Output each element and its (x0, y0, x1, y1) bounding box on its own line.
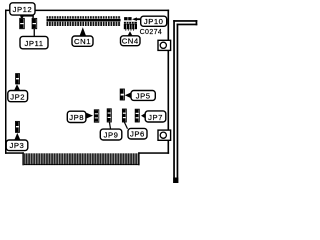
svg-text:JP12: JP12 (13, 5, 33, 14)
svg-text:JP8: JP8 (69, 113, 84, 122)
label JP8 (67, 111, 93, 122)
jumper JP9 (vertical) (107, 109, 111, 122)
label JP9 (100, 122, 122, 140)
board bottom-right edge (138, 152, 169, 154)
connector CN1 (47, 16, 121, 26)
svg-text:CN4: CN4 (122, 37, 139, 46)
jumper JP11 (vertical) (32, 18, 37, 28)
svg-text:JP6: JP6 (130, 130, 145, 139)
svg-text:CN1: CN1 (74, 37, 91, 46)
label JP6 (124, 122, 147, 139)
svg-text:JP10: JP10 (144, 17, 164, 26)
board top edge (5, 10, 169, 12)
board bottom-left edge (5, 152, 24, 154)
board right edge (168, 10, 170, 154)
label JP12 (10, 3, 35, 19)
label JP10 (132, 16, 167, 26)
board left edge (5, 10, 7, 154)
bracket (173, 20, 197, 183)
jumper JP12 (vertical) (20, 18, 25, 28)
jumper JP2 (vertical) (16, 74, 20, 84)
svg-text:C0274: C0274 (140, 29, 163, 36)
board right step from edge connector (138, 152, 139, 165)
jumper JP8 (vertical) (94, 110, 99, 122)
svg-text:JP5: JP5 (136, 91, 151, 100)
bracket bottom screw tab (158, 130, 171, 140)
label JP3 (6, 133, 28, 151)
svg-text:JP11: JP11 (25, 39, 44, 48)
label CN1 (72, 27, 93, 46)
jumper JP3 (vertical) (16, 121, 20, 132)
label JP2 (8, 84, 28, 101)
label CN4 (121, 31, 141, 45)
bracket top screw tab (158, 40, 171, 50)
jumper JP7 (vertical) (135, 109, 139, 122)
svg-text:JP3: JP3 (10, 141, 25, 150)
connector CN4 (124, 22, 137, 31)
jumper JP5 (vertical) (120, 89, 124, 100)
label JP5 (125, 91, 156, 101)
label JP7 (141, 111, 166, 122)
jumper JP6 (vertical) (122, 109, 126, 122)
svg-text:JP2: JP2 (10, 92, 25, 101)
jumper JP10 (horizontal 2 pins) (124, 17, 131, 20)
svg-text:JP9: JP9 (104, 131, 119, 140)
board left step to edge connector (22, 152, 23, 165)
label JP11 (20, 29, 48, 49)
svg-text:JP7: JP7 (148, 113, 163, 122)
card edge connector fingers (24, 164, 139, 165)
